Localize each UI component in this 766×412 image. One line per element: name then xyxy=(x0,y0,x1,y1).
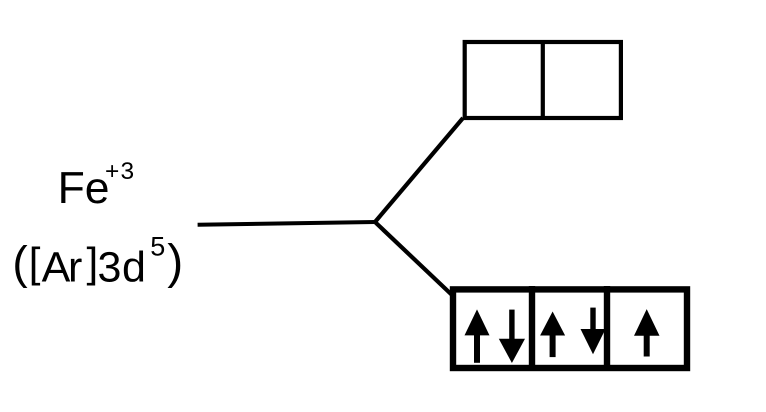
svg-text:+3: +3 xyxy=(105,158,135,185)
wire down-diagonal junction to t2g level xyxy=(375,222,452,295)
electron up arrow box2 xyxy=(540,312,565,358)
svg-text:): ) xyxy=(167,236,183,289)
electron up arrow box3 xyxy=(634,309,660,356)
svg-text:[: [ xyxy=(29,239,41,286)
wire up-diagonal junction to eg level xyxy=(375,118,463,222)
svg-text:r: r xyxy=(68,244,82,292)
eg orbital boxes (top, empty) xyxy=(465,40,621,120)
svg-text:A: A xyxy=(42,244,71,292)
svg-text:(: ( xyxy=(12,236,28,288)
svg-text:]: ] xyxy=(87,239,99,286)
svg-text:5: 5 xyxy=(150,232,165,262)
svg-text:Fe: Fe xyxy=(58,164,110,213)
svg-text:3: 3 xyxy=(98,244,122,292)
t2g orbital boxes (bottom) xyxy=(453,286,687,368)
label Fe+3 xyxy=(58,158,136,213)
electron down arrow box2 xyxy=(581,308,606,355)
svg-text:d: d xyxy=(122,244,146,292)
electron up arrow box1 xyxy=(465,309,490,362)
wire horizontal from label to junction xyxy=(198,222,375,225)
label ([Ar]3d5) xyxy=(12,232,183,292)
electron down arrow box1 xyxy=(499,310,525,363)
